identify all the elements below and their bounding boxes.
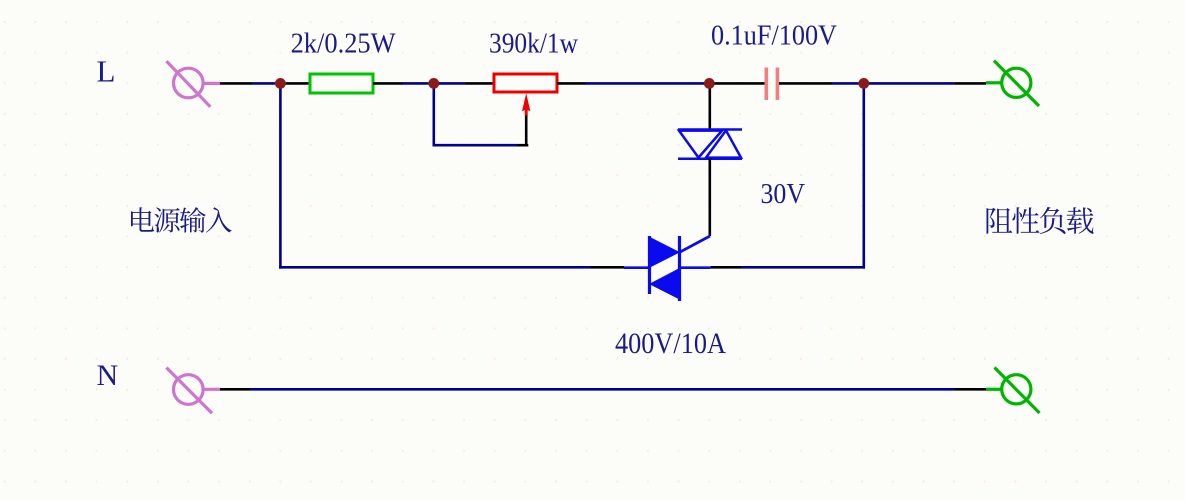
wire node D to load terminal: [864, 82, 955, 85]
wire node B to RP1: [434, 82, 466, 85]
terminal N (mains input, magenta): [166, 368, 220, 414]
wire diac to triac gate: [708, 159, 711, 236]
resistor R1 2k/0.25W: [310, 74, 373, 93]
svg-text:30V: 30V: [761, 179, 806, 210]
node A junction: [275, 78, 286, 89]
wire R1 to node B: [373, 82, 403, 85]
wire wiper to loop corner: [525, 116, 528, 146]
label 阻性负载 (resistive load): [986, 207, 1093, 234]
terminal L (mains input, magenta): [167, 61, 221, 107]
wire bottom left horizontal to triac: [279, 266, 590, 269]
wire RP1 to node C: [557, 82, 586, 85]
wire node A to R1: [280, 82, 310, 85]
wire L terminal to node A: [220, 82, 252, 85]
triac gate lead: [680, 236, 711, 252]
svg-text:L: L: [97, 53, 116, 88]
svg-text:390k/1w: 390k/1w: [489, 28, 578, 60]
wire capacitor to node D: [779, 82, 832, 85]
wire node C down to diac: [708, 83, 711, 129]
svg-text:400V/10A: 400V/10A: [615, 328, 727, 360]
label 电源输入 (power input): [131, 207, 232, 233]
triac Q1 400V/10A: [624, 236, 711, 301]
wire node C to capacitor C1: [709, 82, 764, 85]
svg-text:2k/0.25W: 2k/0.25W: [291, 28, 397, 60]
potentiometer wiper arrow: [522, 93, 530, 115]
svg-text:0.1uF/100V: 0.1uF/100V: [711, 20, 837, 51]
node D junction: [858, 78, 869, 89]
terminal load top (green): [986, 61, 1039, 106]
node C junction: [704, 78, 715, 89]
capacitor C1 0.1uF/100V plates: [764, 68, 768, 101]
terminal load bottom (green): [986, 368, 1040, 414]
wire node A down left side: [279, 83, 282, 268]
wire riser up to node D: [862, 83, 865, 268]
wire loop left vertical to node B: [432, 83, 435, 146]
wire N run: [220, 388, 250, 391]
diac D1: [678, 130, 742, 159]
svg-text:N: N: [97, 359, 119, 392]
node B junction: [428, 78, 439, 89]
wire triac right to vertical riser: [711, 266, 741, 269]
potentiometer RP1 390k/1w body: [494, 74, 557, 92]
wire loop bottom horizontal: [517, 144, 528, 147]
